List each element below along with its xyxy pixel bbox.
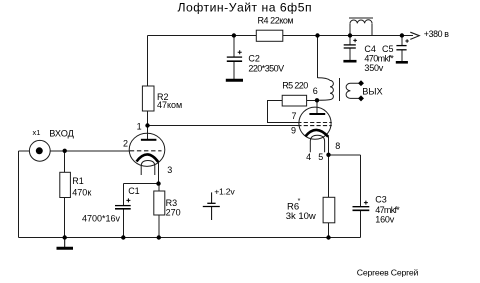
node 8 cathode [326,153,330,157]
transformer T1 secondary [346,83,361,98]
svg-text:8: 8 [335,141,340,151]
svg-text:R5 220: R5 220 [282,80,308,90]
wire R5 right lead [307,100,318,102]
battery +1.2v [203,192,220,220]
svg-text:6: 6 [313,86,318,96]
svg-text:1: 1 [137,122,142,132]
svg-text:C2: C2 [248,53,260,63]
arrow +380v [410,32,419,39]
output terminal top [358,80,364,86]
svg-text:+1.2v: +1.2v [214,186,235,196]
svg-text:3: 3 [167,165,172,175]
svg-text:47mkf*: 47mkf* [375,205,400,215]
wire input to grid [50,150,130,152]
svg-text:+380 в: +380 в [424,29,450,39]
wire output cathode lead [328,137,330,155]
resistor R6 [323,197,335,223]
connector X1 [29,140,50,161]
svg-text:C1: C1 [128,186,140,196]
wire R3 bottom lead [158,215,160,238]
svg-text:C5: C5 [382,44,394,54]
wire R2 top vertical [147,36,149,87]
wire driver plate lead [147,126,149,140]
wire R1 top lead [64,151,66,173]
wire C2 lead [233,36,235,57]
V1 cathode [137,154,159,162]
wire driver cathode lead [157,162,159,184]
svg-text:470mkf*: 470mkf* [364,54,394,64]
wire B+ to transformer primary [317,36,319,78]
V1 grid dashes [130,150,162,152]
wire R5 left lead [268,101,299,123]
svg-text:2: 2 [123,139,128,149]
wire X1 left lead [19,150,30,152]
svg-text:220*350V: 220*350V [248,64,284,74]
wire C2 lower lead [233,62,235,80]
wire R2 bottom to node 1 [147,111,149,126]
node C4 top [348,33,352,37]
V1 heater [141,161,155,176]
transformer core [339,78,341,101]
V2 heater [310,135,324,152]
tube V2 output pentode [297,107,332,152]
capacitor C2 [226,57,243,80]
wire R6 top lead [328,155,330,198]
node C2 top [232,33,236,37]
svg-text:270: 270 [166,207,181,217]
V2 anode [309,113,325,115]
wire C4 top lead [349,36,351,45]
node 6 plate [315,98,319,102]
wire C5 top lead [401,36,403,46]
wire output plate lead [316,100,318,114]
wire R3 top lead [158,184,160,191]
node C1 ground [121,235,125,239]
choke L1 [349,18,373,23]
wire C1 bottom lead [122,209,124,238]
resistor R5 [282,95,306,106]
svg-text:350v: 350v [364,63,383,73]
capacitor C4 [343,45,356,61]
capacitor C1 [115,206,131,209]
node R6 ground [326,235,330,239]
svg-text:C4: C4 [364,44,376,54]
node 1 driver plate [145,123,149,127]
node R1 ground [62,235,66,239]
svg-text:Лофтин-Уайт на 6ф5п: Лофтин-Уайт на 6ф5п [178,1,313,15]
V2 grid 1 dashes [297,125,332,127]
svg-text:ВЫХ: ВЫХ [362,87,382,97]
wire C1 top lead [122,184,124,206]
svg-text:R4 22ком: R4 22ком [258,16,294,26]
capacitor C5 [396,46,408,63]
node X1-R1-grid [62,149,66,153]
V2 grid 2 dashes [297,122,332,124]
wire top B+ rail [148,35,414,37]
wire C3 top lead [359,155,361,207]
wire cathode node to C3 [329,154,361,156]
node R3 ground [157,235,161,239]
wire C3 bottom lead [359,211,361,238]
svg-text:3k 10w: 3k 10w [286,211,316,222]
svg-text:4700*16v: 4700*16v [82,213,121,223]
resistor R1 [60,172,71,197]
transformer T1 primary [317,78,333,100]
svg-text:47ком: 47ком [157,100,182,110]
output terminal bottom [358,95,364,101]
wire ground bottom rail [19,237,361,239]
capacitor C3 [353,207,370,211]
wire node1 to output grid [148,125,300,127]
V2 cathode [305,130,328,137]
wire left vertical [18,151,20,238]
svg-text:7: 7 [291,111,296,121]
wire R6 bottom lead [328,223,330,238]
svg-text:x1: x1 [33,128,41,137]
svg-text:4: 4 [306,152,311,162]
svg-text:*: * [298,198,301,205]
svg-text:470к: 470к [72,187,91,197]
choke L1 leads [350,23,372,35]
resistor R3 [154,191,165,215]
svg-text:Сергеев Сергей: Сергеев Сергей [357,268,419,278]
node R4 right [315,33,319,37]
node 3 cathode [156,181,160,185]
resistor R2 [142,86,154,111]
svg-text:9: 9 [291,126,296,136]
wire cathode node to C1 [123,183,158,185]
wire C5 lower lead [401,50,403,62]
svg-text:ВХОД: ВХОД [49,128,74,138]
svg-text:C3: C3 [375,194,387,204]
tube V1 driver triode [129,133,165,175]
wire R1 bottom lead [64,198,66,238]
svg-text:5: 5 [318,152,323,162]
resistor R4 [256,30,283,41]
svg-text:R1: R1 [72,176,84,186]
ground [57,238,74,249]
V1 anode [141,139,157,141]
wire C4 lower lead [349,48,351,60]
node C5 top [400,33,404,37]
svg-text:160v: 160v [375,215,394,225]
